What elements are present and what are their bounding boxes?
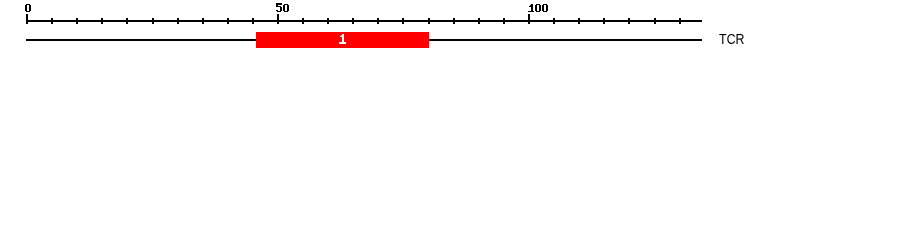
svg-text:TCR: TCR [719, 32, 745, 48]
